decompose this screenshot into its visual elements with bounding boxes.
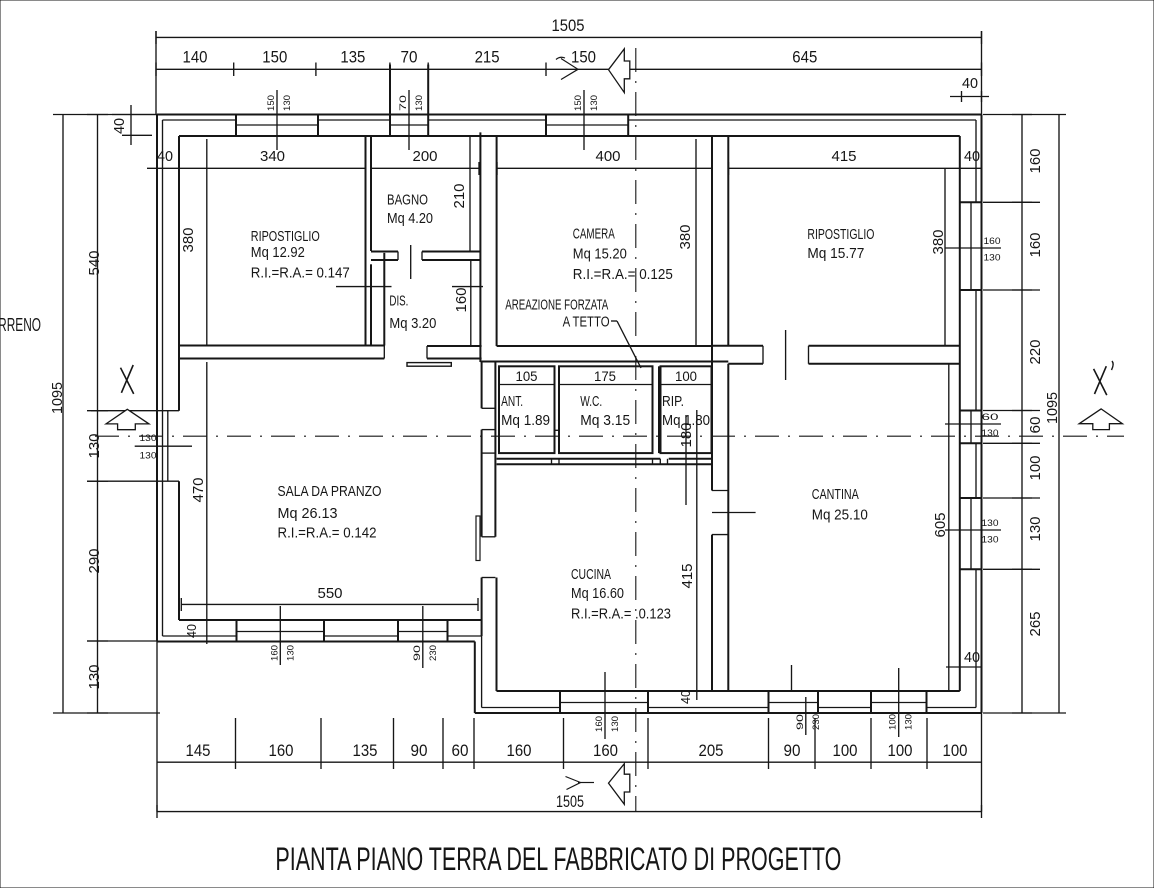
svg-text:205: 205: [699, 741, 724, 760]
svg-text:70: 70: [398, 95, 409, 111]
window 150x130 top wall (camera): [545, 115, 547, 137]
svg-text:100: 100: [833, 741, 858, 760]
right dimension extension ticks: [983, 114, 1066, 116]
svg-text:470: 470: [190, 478, 207, 503]
svg-text:150: 150: [262, 48, 287, 67]
wall wc/rip: [652, 366, 654, 453]
svg-text:60: 60: [1027, 417, 1044, 434]
svg-text:415: 415: [832, 148, 857, 165]
svg-text:230: 230: [428, 645, 439, 661]
svg-text:645: 645: [792, 48, 817, 67]
section arrow Y top (pointing left): [609, 49, 630, 93]
dimension 380 camera: [695, 139, 697, 346]
svg-text:SALA DA PRANZO: SALA DA PRANZO: [278, 484, 382, 500]
svg-text:605: 605: [932, 513, 949, 538]
niche line ripostiglio-dis: [336, 286, 392, 288]
window 100x130 cantina bottom wall: [870, 691, 872, 713]
svg-text:W.C.: W.C.: [580, 394, 602, 410]
interior dimension row 40/340/200/400/415/40: [147, 167, 366, 169]
svg-text:Mq 16.60: Mq 16.60: [571, 586, 624, 602]
svg-text:AREAZIONE FORZATA: AREAZIONE FORZATA: [505, 297, 608, 313]
svg-text:BAGNO: BAGNO: [387, 193, 428, 209]
dimension 605 cantina: [948, 364, 950, 691]
svg-text:Mq 15.20: Mq 15.20: [573, 247, 627, 263]
wall camera/ant-wc-rip: [497, 345, 712, 347]
section letter Y (top, rotated): [561, 59, 578, 80]
svg-text:40: 40: [678, 690, 693, 704]
left dimension extension ticks: [53, 114, 157, 116]
svg-text:550: 550: [318, 585, 343, 602]
svg-text:RIPOSTIGLIO: RIPOSTIGLIO: [251, 229, 320, 245]
wall ripostiglio-dis/sala with door opening: [179, 345, 384, 347]
section letter X left: [121, 368, 134, 394]
svg-text:130: 130: [86, 665, 103, 690]
window 150x130 top wall (ripostiglio): [235, 115, 237, 137]
svg-text:215: 215: [475, 48, 500, 67]
svg-text:R.I.=R.A.= .0.123: R.I.=R.A.= .0.123: [571, 607, 671, 623]
svg-text:90: 90: [411, 741, 428, 760]
top dimension row 140/150/135/70/215/150/645: [156, 68, 982, 70]
window 130x130 left wall (sala): [91, 410, 179, 412]
svg-text:130: 130: [86, 434, 103, 459]
svg-text:150: 150: [266, 95, 277, 111]
svg-text:70: 70: [401, 48, 418, 67]
svg-text:380: 380: [180, 228, 197, 253]
svg-text:290: 290: [86, 549, 103, 574]
dimension 470 sala: [206, 362, 208, 644]
svg-text:100: 100: [888, 714, 899, 730]
svg-text:100: 100: [675, 368, 697, 384]
left overall dimension 1095: [62, 115, 64, 714]
svg-text:130: 130: [904, 714, 915, 730]
svg-text:100: 100: [943, 741, 968, 760]
window 130x130 right wall (cantina): [960, 497, 982, 499]
svg-text:R.I.=R.A.= 0.142: R.I.=R.A.= 0.142: [278, 525, 377, 541]
svg-text:100: 100: [1027, 456, 1044, 481]
dimension 550 sala: [181, 603, 478, 605]
section arrow Y bottom (pointing left): [609, 764, 630, 805]
svg-text:160: 160: [453, 288, 470, 313]
door leaf dis-sala: [407, 363, 451, 367]
svg-text:340: 340: [260, 148, 285, 165]
window 160x130 sala bottom wall: [236, 620, 238, 642]
svg-text:100: 100: [888, 741, 913, 760]
door 90x230 cantina bottom wall: [768, 691, 770, 713]
svg-text:40: 40: [111, 118, 128, 134]
svg-text:90: 90: [412, 645, 423, 661]
dimension 380 ripostiglio2: [944, 168, 946, 345]
overall top dimension 1505: [156, 36, 982, 38]
svg-text:R.I.=R.A.= 0.147: R.I.=R.A.= 0.147: [251, 266, 350, 282]
svg-text:130: 130: [982, 535, 999, 546]
svg-text:40: 40: [184, 624, 199, 638]
svg-text:60: 60: [982, 412, 999, 423]
wall camera/ripostiglio2: [711, 136, 713, 491]
section arrow X' right (pointing up): [1079, 409, 1122, 430]
svg-text:130: 130: [140, 451, 157, 462]
svg-text:PIANTA PIANO TERRA DEL FABBRIC: PIANTA PIANO TERRA DEL FABBRICATO DI PRO…: [275, 841, 841, 877]
wall ripostiglio/bagno: [365, 136, 367, 346]
room boxes ant/wc/rip: [499, 366, 555, 453]
dimension 380 ripostiglio: [206, 139, 208, 346]
dimension 415 cucina: [696, 410, 698, 700]
svg-text:540: 540: [86, 251, 103, 276]
svg-text:1505: 1505: [552, 16, 585, 35]
svg-text:Mq 1.80: Mq 1.80: [662, 413, 710, 429]
section letter Y (bottom, rotated): [566, 777, 581, 790]
dimension 210 bagno: [469, 137, 471, 251]
svg-text:1505: 1505: [556, 792, 584, 811]
svg-text:Mq 15.77: Mq 15.77: [807, 246, 864, 262]
section letter X' right: [1094, 369, 1107, 395]
svg-text:Mq 3.15: Mq 3.15: [580, 413, 630, 429]
svg-text:CUCINA: CUCINA: [571, 567, 611, 583]
svg-text:220: 220: [1027, 340, 1044, 365]
bottom dimension row 145/160/135/90/60/160/160/205/90/100/100/100: [157, 761, 982, 763]
wall ant/wc with door: [554, 366, 556, 430]
dimension row 105/175/100 ant-wc-rip: [499, 384, 555, 386]
svg-text:105: 105: [516, 368, 538, 384]
svg-text:Mq 3.20: Mq 3.20: [389, 316, 436, 332]
svg-text:130: 130: [1027, 517, 1044, 542]
svg-text:A TETTO: A TETTO: [563, 314, 610, 330]
svg-text:60: 60: [452, 741, 469, 760]
door leaf sala-cucina: [476, 516, 480, 561]
wall ripostiglio2/cantina with door: [712, 345, 763, 347]
outer walls of building: [157, 114, 982, 116]
svg-text:1095: 1095: [49, 382, 66, 414]
svg-text:130: 130: [982, 518, 999, 529]
section arrow X left (pointing up): [106, 409, 149, 429]
svg-text:RIPOSTIGLIO: RIPOSTIGLIO: [807, 227, 874, 243]
svg-text:130: 130: [285, 645, 296, 661]
svg-text:DIS.: DIS.: [389, 293, 408, 309]
svg-text:200: 200: [413, 148, 438, 165]
svg-text:160: 160: [594, 716, 605, 732]
svg-text:1095: 1095: [1044, 392, 1061, 424]
svg-text:160: 160: [269, 645, 280, 661]
svg-text:265: 265: [1027, 612, 1044, 637]
window 60x130 right wall (cantina): [960, 410, 982, 412]
window 160x130 cucina bottom wall: [559, 691, 561, 713]
svg-text:145: 145: [186, 741, 211, 760]
wall cucina/cantina with door: [711, 136, 713, 491]
svg-text:Mq 4.20: Mq 4.20: [387, 211, 433, 227]
svg-text:150: 150: [573, 95, 584, 111]
svg-text:130: 130: [982, 428, 999, 439]
svg-text:Mq 26.13: Mq 26.13: [278, 506, 338, 522]
svg-text:175: 175: [594, 368, 616, 384]
svg-text:CAMERA: CAMERA: [573, 227, 615, 243]
svg-text:130: 130: [140, 433, 157, 444]
svg-text:R.I.=R.A.= 0.125: R.I.=R.A.= 0.125: [573, 267, 673, 283]
svg-text:40: 40: [964, 148, 980, 165]
svg-text:160: 160: [507, 741, 532, 760]
svg-text:150: 150: [571, 48, 596, 67]
dimension 160 dis: [470, 260, 472, 348]
wall sala/ant-cucina with doors: [481, 362, 483, 408]
svg-text:130: 130: [610, 716, 621, 732]
section line Y-Y vertical dash-dot: [635, 48, 637, 812]
svg-text:Mq 1.89: Mq 1.89: [501, 413, 550, 429]
svg-text:210: 210: [451, 184, 468, 209]
svg-text:230: 230: [811, 714, 822, 730]
svg-text:90: 90: [784, 741, 801, 760]
title pianta piano terra: [275, 841, 841, 877]
svg-text:130: 130: [282, 95, 293, 111]
wall bagno-dis/camera: [479, 132, 481, 362]
svg-text:90: 90: [795, 714, 806, 730]
svg-text:400: 400: [596, 148, 621, 165]
svg-text:CANTINA: CANTINA: [812, 487, 859, 503]
dimension 40 top left wall thickness: [130, 105, 132, 145]
right overall dimension 1095: [1058, 115, 1060, 714]
overall bottom dimension 1505: [157, 811, 982, 813]
svg-text:130: 130: [589, 95, 600, 111]
svg-text:40: 40: [157, 148, 173, 165]
svg-text:40: 40: [964, 649, 980, 666]
svg-text:Mq 12.92: Mq 12.92: [251, 245, 305, 261]
svg-text:135: 135: [340, 48, 365, 67]
svg-text:ANT.: ANT.: [501, 394, 523, 410]
window 70x130 top wall (bagno): [389, 65, 391, 137]
svg-text:160: 160: [593, 741, 618, 760]
wall bagno/dis with door: [371, 251, 398, 253]
dimension 180 rip: [685, 415, 687, 505]
svg-text:140: 140: [183, 48, 208, 67]
left dimension column 540/130/290/130: [97, 115, 99, 714]
svg-text:135: 135: [353, 741, 378, 760]
svg-text:130: 130: [414, 95, 425, 111]
wall ant-wc-rip/cucina with rip door: [497, 458, 661, 460]
svg-text:Mq 25.10: Mq 25.10: [812, 507, 868, 523]
svg-text:40: 40: [962, 75, 978, 92]
svg-text:160: 160: [1027, 149, 1044, 174]
svg-text:415: 415: [679, 564, 696, 589]
right dimension column 160/160/220/60/100/130/265: [1021, 115, 1023, 714]
svg-text:160: 160: [1027, 233, 1044, 258]
french door 90x230 sala bottom wall: [397, 620, 399, 642]
section line X-X horizontal dash-dot: [95, 435, 1124, 437]
svg-text:TERRENO: TERRENO: [0, 315, 41, 335]
svg-text:130: 130: [984, 253, 1001, 264]
window 160x130 right wall (ripostiglio): [960, 201, 982, 203]
svg-text:160: 160: [984, 236, 1001, 247]
svg-text:380: 380: [930, 230, 947, 255]
svg-text:160: 160: [269, 741, 294, 760]
svg-text:380: 380: [677, 225, 694, 250]
svg-text:RIP.: RIP.: [662, 394, 684, 410]
